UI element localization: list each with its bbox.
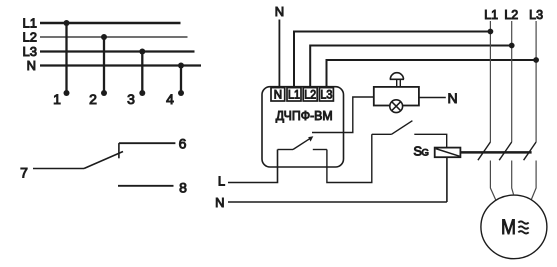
svg-text:3: 3 [127,91,135,107]
wire tap 2 (from L2) [103,37,105,93]
lamp HL (circle with X) [390,100,403,113]
wire terminal L1 to right L1 [294,32,490,88]
svg-text:ДЧПФ-ВМ: ДЧПФ-ВМ [276,108,333,123]
wire tap 4 (from N) [180,66,182,94]
relay coil SG [435,148,461,158]
push-button S1 body [374,87,419,106]
wire upper throw to lamp button [312,97,374,133]
svg-text:L2: L2 [23,30,37,45]
mechanical linkage SG to contactor [460,151,531,154]
svg-text:L1: L1 [288,90,300,102]
svg-text:N: N [274,90,282,102]
SG switch blade [392,121,413,135]
svg-text:L: L [218,174,225,189]
wire N bottom [228,201,447,203]
terminal box L2 [303,88,317,101]
wire tap 3 (from L3) [141,52,143,94]
SG switch contact right [414,134,446,147]
junction dot L3 [533,57,539,63]
terminal dot 4 [178,90,184,96]
contactor blade phase 1 [478,142,491,160]
wire terminal 7 [33,168,84,170]
internal relay contact left [278,149,294,151]
svg-text:N: N [275,4,284,19]
svg-text:N: N [448,90,458,106]
junction dot on N [178,63,184,69]
svg-text:2: 2 [89,91,97,107]
wire bus L2 [40,36,188,38]
contact tick 6 [118,143,120,158]
wire terminal L2 to right L2 [310,46,512,88]
svg-text:G: G [422,148,429,159]
switch blade 7-6 [84,152,123,169]
internal relay blade with arrow [293,138,311,149]
wire bus L1 [40,22,181,25]
terminal box L1 [287,88,301,101]
svg-text:7: 7 [20,165,28,181]
wire motor lead 1 [490,161,496,201]
junction dot on L1 [64,20,70,26]
contactor blade phase 3 [524,142,537,160]
svg-text:N: N [215,195,224,210]
terminal box N [271,88,285,101]
junction dot on L3 [139,49,145,55]
motor M1 circle [481,195,547,259]
terminal box L3 [319,88,333,101]
svg-text:L3: L3 [320,90,332,102]
junction dot L1 [488,29,494,35]
wire SG coil to N [446,157,448,202]
svg-text:M: M [501,215,516,239]
svg-text:L1: L1 [23,16,37,31]
wire motor lead 3 [531,161,536,200]
wire phase L1 drop [489,21,491,142]
wire N to terminal N [278,20,280,88]
motor triple tilde [518,221,528,223]
svg-text:L2: L2 [304,90,316,102]
svg-text:L3: L3 [529,8,543,22]
svg-text:L1: L1 [484,8,498,22]
junction dot L2 [509,43,515,49]
wire terminal L3 to right L3 [327,60,537,88]
wire button to N [419,97,446,99]
SG switch contact left [372,133,392,135]
contactor blade phase 2 [499,142,512,160]
junction dot on L2 [101,34,107,40]
terminal dot 2 [101,90,107,96]
wire L feed [228,150,278,183]
svg-text:N: N [27,58,36,73]
terminal dot 3 [139,90,145,96]
wire motor lead 2 [512,161,514,195]
wire tap 1 (from L1) [65,23,67,93]
svg-text:4: 4 [166,91,174,107]
push-button dome [390,73,404,80]
wire bus L3 [40,50,195,52]
wire lower throw to SG switch [327,134,372,182]
wire bus N [40,64,201,66]
svg-text:L2: L2 [504,8,518,22]
wire terminal 8 [118,185,174,187]
wire phase L2 drop [511,21,513,142]
terminal dot 1 [64,90,70,96]
svg-text:8: 8 [179,180,187,196]
internal relay contact right [313,149,327,151]
svg-text:1: 1 [53,91,61,107]
svg-text:L3: L3 [23,44,37,59]
device box U1 ДЧПФ-ВМ [262,87,344,167]
wire phase L3 drop [535,21,537,142]
wire terminal 6 [119,142,175,144]
push-button stem [396,79,398,87]
svg-text:6: 6 [179,136,187,152]
